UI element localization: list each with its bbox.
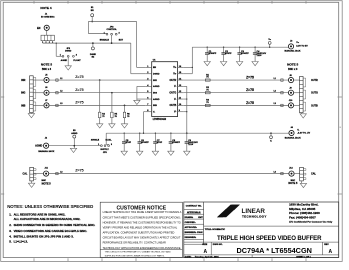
svg-text:2.: 2. (9, 223, 12, 227)
svg-text:SUPPLIED FOR USE WITH LINEAR T: SUPPLIED FOR USE WITH LINEAR TECHNOLOGY … (105, 254, 165, 257)
svg-text:V-: V- (297, 129, 299, 131)
svg-text:DGND: DGND (90, 54, 97, 56)
svg-text:4700PF: 4700PF (172, 141, 180, 144)
svg-text:INB: INB (21, 104, 25, 107)
svg-text:ING: ING (21, 92, 25, 95)
svg-text:A: A (203, 249, 207, 255)
svg-text:DC794A * LT6554CGN: DC794A * LT6554CGN (236, 246, 311, 255)
svg-text:L3: L3 (274, 103, 276, 105)
svg-text:V-: V- (270, 141, 272, 143)
svg-text:DATE:: DATE: (185, 255, 192, 258)
svg-text:4700PF: 4700PF (209, 52, 217, 55)
svg-text:5.: 5. (9, 239, 12, 243)
svg-text:BANANA JACK: BANANA JACK (285, 50, 301, 53)
svg-text:NOTE 5: NOTE 5 (42, 182, 52, 185)
svg-text:ENABLE: ENABLE (100, 38, 110, 41)
svg-text:AGND: AGND (35, 145, 42, 148)
svg-text:LINEAR TECHNOLOGY HAS MADE A B: LINEAR TECHNOLOGY HAS MADE A BEST EFFORT… (103, 210, 182, 214)
svg-text:4700PF: 4700PF (241, 52, 249, 55)
svg-text:SINGLE: SINGLE (91, 140, 100, 142)
svg-text:INSTALL SHUNTS ON JP1-JP3 PIN: INSTALL SHUNTS ON JP1-JP3 PIN 2 AND 3. (14, 235, 74, 239)
svg-text:CIRCUIT BOARD LAYOUT MAY SIGNI: CIRCUIT BOARD LAYOUT MAY SIGNIFICANTLY A… (103, 236, 181, 240)
svg-text:AGND: AGND (153, 98, 160, 101)
svg-text:KMT: KMT (198, 217, 203, 219)
svg-text:SIZE: SIZE (202, 244, 207, 246)
svg-text:EN: EN (37, 27, 41, 30)
svg-text:EN: EN (91, 10, 94, 12)
svg-text:L1: L1 (274, 78, 276, 80)
svg-text:APPROVED:: APPROVED: (185, 226, 198, 229)
svg-text:OUTG: OUTG (311, 92, 318, 95)
svg-text:Z=75: Z=75 (75, 88, 83, 92)
svg-text:DGND: DGND (65, 51, 72, 53)
svg-text:BANANA JACK: BANANA JACK (285, 137, 301, 140)
svg-text:DESIGNER:: DESIGNER: (185, 237, 197, 239)
svg-text:3.3V TO 5V: 3.3V TO 5V (296, 45, 308, 47)
svg-text:CHECKED:: CHECKED: (185, 222, 196, 224)
svg-text:Fax: (408)434-0507: Fax: (408)434-0507 (289, 215, 316, 219)
svg-text:4.: 4. (9, 235, 12, 239)
svg-text:470PF: 470PF (225, 52, 232, 55)
svg-text:OUTR: OUTR (170, 79, 177, 82)
svg-text:AGND: AGND (61, 59, 68, 62)
svg-text:VIDEO CONNECTORS ARE CANARE BC: VIDEO CONNECTORS ARE CANARE BCJ-BPLH BNC… (14, 229, 88, 233)
svg-text:L3: L3 (60, 103, 62, 105)
svg-text:CAL: CAL (311, 173, 316, 176)
svg-text:NOTES: UNLESS OTHERWISE SPECI: NOTES: UNLESS OTHERWISE SPECIFIED (7, 204, 93, 209)
svg-text:BNC x 3: BNC x 3 (42, 68, 52, 71)
svg-text:47UF: 47UF (126, 141, 132, 144)
svg-text:Z=75: Z=75 (246, 88, 254, 92)
svg-text:3.: 3. (9, 229, 12, 233)
svg-text:V-: V- (174, 111, 176, 114)
svg-text:FLOAT: FLOAT (73, 59, 81, 62)
svg-text:LTC Confidential For Customer: LTC Confidential For Customer Use Only (289, 220, 333, 223)
svg-text:OUTR: OUTR (311, 79, 318, 82)
svg-text:AGND: AGND (153, 85, 160, 88)
svg-text:ENGINEER:: ENGINEER: (185, 232, 197, 234)
svg-text:TITLE: SCHEMATIC: TITLE: SCHEMATIC (205, 228, 226, 231)
svg-text:BNC x 3: BNC x 3 (288, 68, 298, 71)
svg-text:Z=75: Z=75 (75, 100, 83, 104)
svg-text:L2: L2 (274, 91, 276, 93)
svg-text:INR: INR (153, 80, 157, 82)
svg-text:EN: EN (153, 67, 156, 69)
svg-text:4700PF: 4700PF (141, 141, 149, 144)
svg-text:NOTE 5: NOTE 5 (41, 62, 52, 66)
svg-text:REV: REV (324, 244, 329, 246)
svg-text:NOTE 5: NOTE 5 (287, 62, 298, 66)
svg-text:INR: INR (21, 79, 25, 82)
svg-text:Z=75: Z=75 (246, 101, 254, 105)
svg-text:BANANA JACK: BANANA JACK (38, 150, 54, 153)
svg-text:Z=75: Z=75 (75, 169, 83, 173)
svg-text:L1: L1 (60, 78, 62, 80)
svg-text:CIRCUIT THAT MEETS CUSTOMER-SU: CIRCUIT THAT MEETS CUSTOMER-SUPPLIED SPE… (103, 215, 181, 219)
svg-text:EXT: EXT (119, 39, 124, 41)
svg-text:SHDN CONNECTOR IS GENERIC 50 O: SHDN CONNECTOR IS GENERIC 50 OHMS VERTIC… (14, 223, 96, 227)
svg-text:NOTE 5: NOTE 5 (288, 182, 298, 185)
svg-text:LT6554CGN: LT6554CGN (153, 118, 167, 121)
svg-text:47UF: 47UF (157, 141, 163, 144)
svg-text:L3: L3 (274, 171, 276, 173)
svg-text:ALL CAPACITORS ARE IN MICROFAR: ALL CAPACITORS ARE IN MICROFARADS, 0402. (14, 217, 81, 221)
svg-text:Z=75: Z=75 (75, 75, 83, 79)
svg-text:INB: INB (153, 105, 157, 107)
svg-text:THIS CIRCUIT IS PROPRIETARY TO: THIS CIRCUIT IS PROPRIETARY TO LINEAR TE… (105, 251, 172, 254)
svg-text:50 OHM BNC: 50 OHM BNC (41, 16, 55, 18)
svg-text:ING: ING (153, 93, 157, 95)
svg-text:V-: V- (153, 112, 155, 114)
svg-text:DRAWN:: DRAWN: (185, 216, 194, 219)
svg-text:1210: 1210 (257, 55, 263, 57)
svg-text:OUTB: OUTB (170, 104, 177, 107)
svg-text:AGND: AGND (71, 132, 78, 135)
svg-text:L1=L2=L3.: L1=L2=L3. (14, 239, 28, 243)
svg-text:SUPPLY: SUPPLY (100, 149, 109, 151)
svg-text:DWG NO.: DWG NO. (213, 244, 223, 246)
svg-text:A: A (328, 249, 332, 255)
svg-text:TRIPLE HIGH SPEED VIDEO BUFFER: TRIPLE HIGH SPEED VIDEO BUFFER (217, 235, 322, 242)
svg-text:ALL RESISTORS ARE IN OHMS, 040: ALL RESISTORS ARE IN OHMS, 0402. (14, 212, 66, 216)
svg-text:V-: V- (174, 85, 176, 88)
svg-text:APPLICATION. COMPONENT SUBSTI: APPLICATION. COMPONENT SUBSTITUTION AND … (103, 231, 175, 235)
svg-text:CONTROL: CONTROL (106, 29, 117, 31)
svg-text:SHEET 1 OF 1: SHEET 1 OF 1 (296, 256, 311, 258)
svg-text:-3.3V TO -5V: -3.3V TO -5V (297, 133, 310, 135)
svg-text:HOWEVER, IT REMAINS THE CUSTOM: HOWEVER, IT REMAINS THE CUSTOMER’S RESPO… (103, 220, 181, 224)
svg-text:L2: L2 (60, 91, 62, 93)
svg-text:NOTE 4: NOTE 4 (40, 6, 51, 10)
svg-text:1210: 1210 (188, 144, 194, 146)
svg-text:CONTRACT NO.: CONTRACT NO. (186, 204, 202, 207)
svg-text:DGND: DGND (153, 74, 160, 76)
svg-text:Tuesday, April 27, 2004: Tuesday, April 27, 2004 (195, 255, 220, 258)
svg-text:Z=75: Z=75 (246, 75, 254, 79)
svg-text:JOHN: JOHN (197, 232, 203, 234)
svg-text:OUTB: OUTB (311, 104, 318, 107)
svg-text:L3: L3 (60, 171, 62, 173)
svg-text:TECHNOLOGY: TECHNOLOGY (242, 214, 267, 218)
svg-text:DUAL: DUAL (105, 139, 112, 142)
svg-text:VERIFY PROPER AND RELIABLE OPE: VERIFY PROPER AND RELIABLE OPERATION IN … (103, 225, 178, 229)
svg-text:PERFORMANCE OR RELIABILITY. C: PERFORMANCE OR RELIABILITY. CONTACT LINE… (103, 241, 166, 245)
svg-text:V-: V- (174, 98, 176, 101)
svg-text:OUTG: OUTG (169, 92, 176, 95)
svg-text:CAL: CAL (22, 173, 27, 176)
svg-text:1.: 1. (9, 212, 12, 216)
